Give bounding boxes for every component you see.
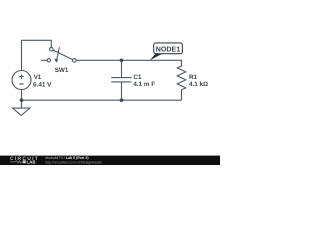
svg-text:6.41 V: 6.41 V xyxy=(33,82,52,89)
svg-text:4.1 kΩ: 4.1 kΩ xyxy=(189,81,208,88)
svg-text:R1: R1 xyxy=(189,74,198,81)
svg-text:http://circuitlab.com/c/29hdsg: http://circuitlab.com/c/29hdsgk63u85 xyxy=(45,160,102,164)
svg-text:C1: C1 xyxy=(133,74,142,81)
svg-text:NODE1: NODE1 xyxy=(156,45,180,53)
svg-text:V1: V1 xyxy=(34,74,42,81)
svg-text:SW1: SW1 xyxy=(55,67,69,74)
svg-text:4.1 m F: 4.1 m F xyxy=(133,81,155,88)
svg-text:LAB: LAB xyxy=(27,159,36,164)
